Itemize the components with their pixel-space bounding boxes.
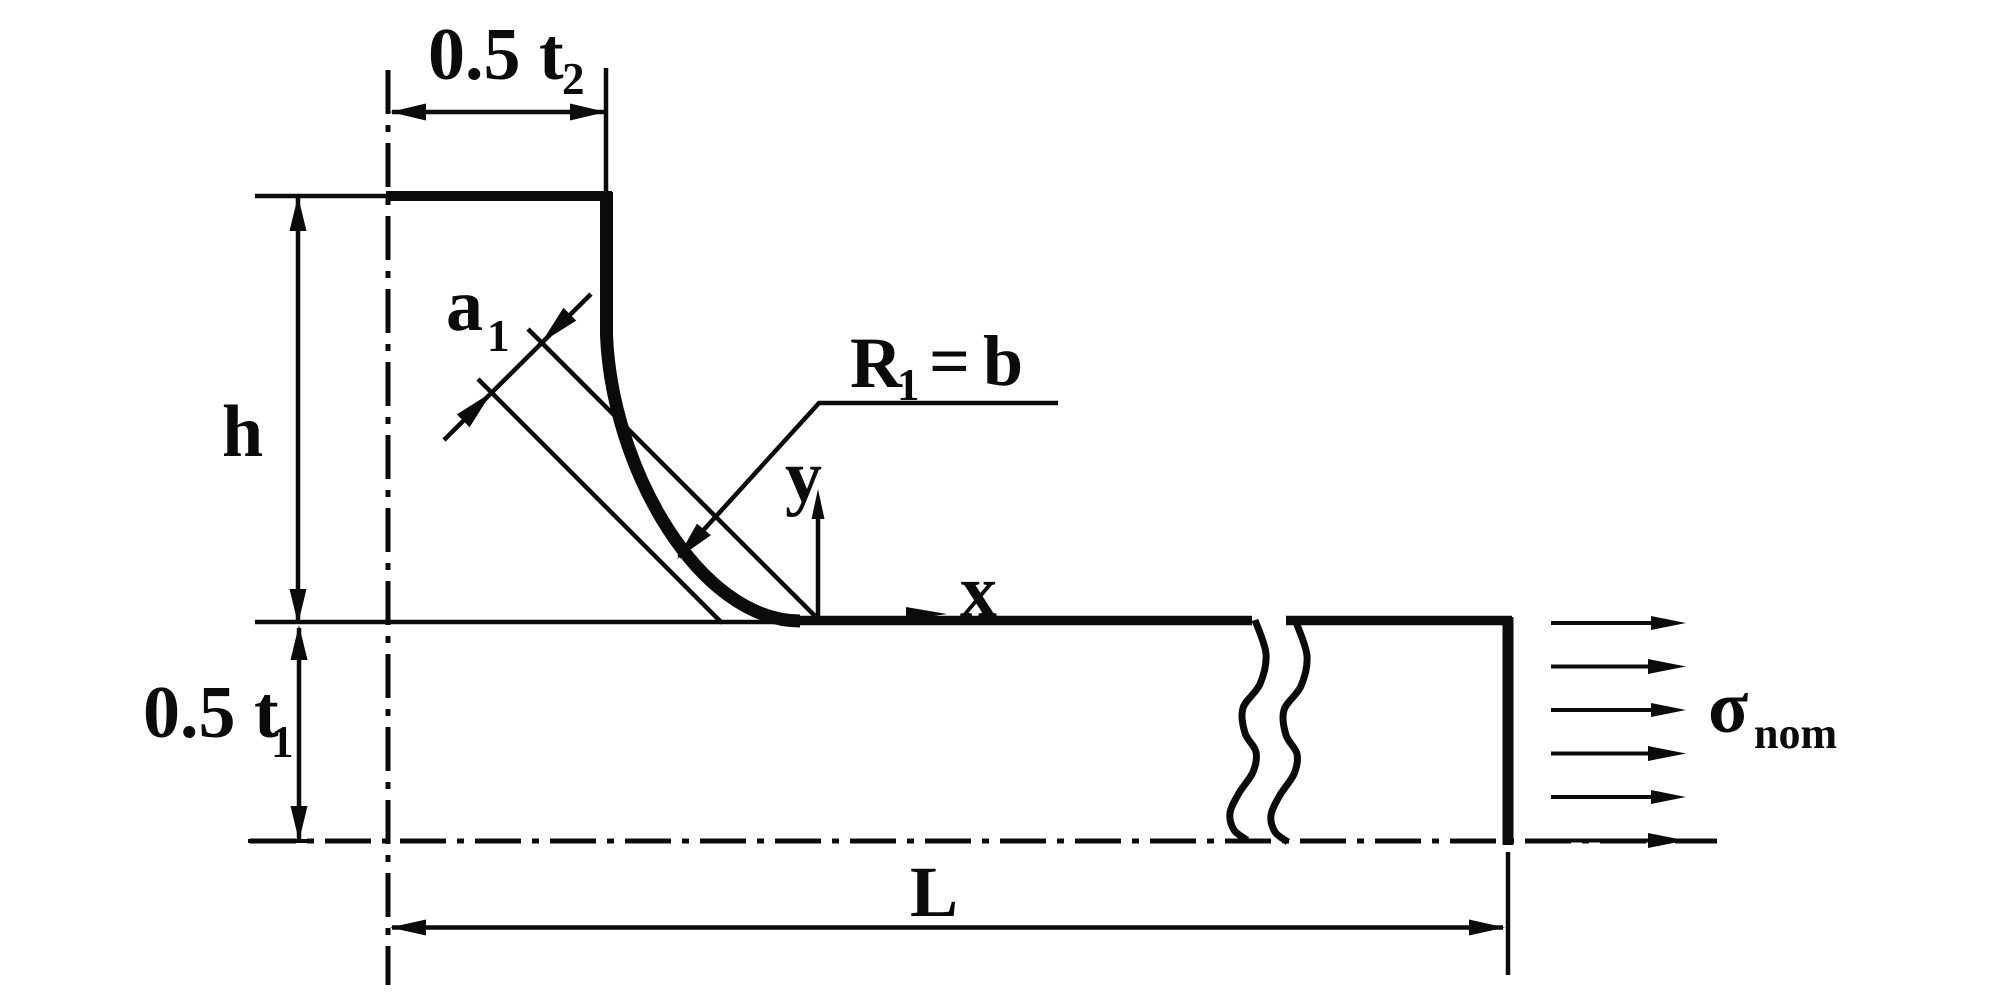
- extension line left end of horizontal centerline: [248, 839, 314, 843]
- horizontal centerline of plate (dash-dot): [250, 839, 1717, 844]
- dimension 0.5 t1: vertical dimension line with arrows: [291, 625, 308, 841]
- svg-text:0.5 t: 0.5 t: [143, 672, 279, 754]
- svg-text:2: 2: [562, 54, 585, 104]
- svg-text:b: b: [983, 321, 1023, 401]
- x axis arrowhead on plate surface: [906, 607, 947, 620]
- attachment right face + weld fillet curve (thick): [607, 192, 801, 621]
- svg-text:=: =: [929, 321, 970, 401]
- dimension a1: oblique dimension line with two inward arrows: [444, 294, 591, 440]
- svg-text:L: L: [910, 852, 958, 932]
- weld throat line lower (thin 45 deg): [478, 379, 722, 623]
- dimension h: vertical dimension line with arrows: [290, 196, 307, 624]
- weld throat line upper (thin 45 deg, to weld toe): [528, 329, 815, 616]
- vertical centerline of attachment (dash-dot): [386, 70, 391, 985]
- svg-text:x: x: [960, 551, 997, 633]
- svg-text:1: 1: [487, 311, 510, 361]
- attachment top cap (thick): [386, 191, 612, 201]
- plate top surface thin line left of weld toe: [255, 620, 800, 625]
- plate top surface thick line, left of break: [782, 616, 1252, 626]
- svg-text:a: a: [446, 265, 483, 347]
- svg-text:0.5 t: 0.5 t: [428, 14, 564, 96]
- extension line top of attachment (thin, y=196): [255, 194, 392, 199]
- svg-text:h: h: [222, 391, 263, 473]
- stress arrows sigma nom (6 arrows): [1551, 616, 1686, 848]
- svg-text:nom: nom: [1754, 709, 1837, 758]
- svg-text:1: 1: [897, 360, 920, 410]
- svg-text:R: R: [850, 323, 903, 403]
- svg-text:y: y: [785, 436, 822, 518]
- leader for R1 = b (arrow touching fillet): [677, 403, 1058, 559]
- plate right end face (thick): [1503, 617, 1514, 845]
- plate top surface thick line, right of break: [1286, 616, 1512, 626]
- break wavy line 1: [1230, 620, 1266, 840]
- plate right extension line below (thin): [1506, 852, 1511, 975]
- svg-text:σ: σ: [1708, 667, 1748, 749]
- svg-text:1: 1: [271, 717, 294, 767]
- break wavy line 2: [1271, 622, 1307, 842]
- y axis with arrow: [812, 489, 825, 618]
- dimension 0.5 t2: dimension line with arrows: [390, 104, 606, 121]
- dimension 0.5 t2: extension line right (thin vertical x=606): [604, 68, 609, 192]
- dimension L: dimension line with arrows: [390, 920, 1505, 936]
